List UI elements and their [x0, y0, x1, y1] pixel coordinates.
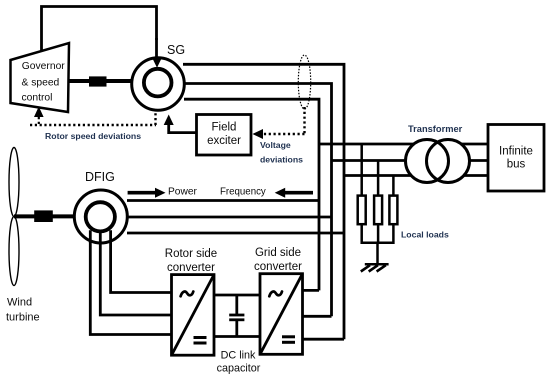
- wire: local load tap 3: [392, 176, 395, 197]
- label: Voltage deviations: [260, 140, 303, 165]
- svg-text:Wind: Wind: [7, 297, 32, 309]
- svg-text:Grid side: Grid side: [255, 247, 301, 259]
- wind turbine blades: [9, 148, 19, 286]
- converter: rotor side (AC/DC): [172, 275, 215, 356]
- dotted feedback: voltage deviations (bus to field exciter): [253, 107, 305, 139]
- shaft: wind turbine to DFIG with coupling block: [14, 210, 76, 222]
- wire: DFIG stator phase b to v2: [128, 216, 332, 219]
- wire: bus line 3: [344, 174, 488, 177]
- svg-text:deviations: deviations: [260, 155, 303, 165]
- wire: grid converter output 3 to v3: [303, 338, 345, 341]
- svg-text:SG: SG: [167, 43, 185, 57]
- svg-text:Power: Power: [168, 186, 197, 197]
- resistor R2 (local load): [374, 196, 382, 225]
- transformer T1: [406, 140, 470, 183]
- svg-text:Rotor side: Rotor side: [165, 248, 217, 260]
- wire: DFIG stator phase c to v3: [127, 232, 344, 235]
- shaft: governor to SG with coupling block: [68, 76, 132, 86]
- wire: bus line 2: [332, 159, 489, 162]
- svg-text:Voltage: Voltage: [260, 140, 291, 150]
- svg-text:capacitor: capacitor: [217, 362, 261, 374]
- governor block: Governor & speed control: [11, 43, 70, 112]
- wire: DFIG rotor line 1 to rotor side converter: [90, 229, 171, 335]
- svg-text:Field: Field: [212, 122, 237, 134]
- wire: bus line 1 to transformer and infinite bus: [319, 143, 488, 146]
- ground: [361, 264, 389, 271]
- svg-text:Infinite: Infinite: [499, 146, 533, 158]
- svg-text:& speed: & speed: [22, 78, 60, 89]
- svg-text:DC link: DC link: [221, 350, 256, 362]
- svg-text:bus: bus: [507, 158, 526, 170]
- wire: DC link bottom rail: [214, 335, 260, 338]
- wire: governor feedback loop (SG top to governor): [42, 7, 157, 53]
- wire: DFIG stator phase a to v1: [127, 199, 319, 202]
- wire: field exciter to SG rotor (arrow up): [164, 115, 197, 133]
- wire: local load tap 2: [377, 161, 380, 197]
- label: Rotor side converter: [165, 248, 217, 274]
- wire: SG stator phase c to bus vertical v1: [184, 99, 319, 290]
- infinite bus box: [488, 125, 544, 192]
- resistor R1 (local load): [358, 196, 366, 225]
- svg-text:Transformer: Transformer: [408, 124, 463, 134]
- wire: local loads common return: [362, 224, 394, 264]
- label: DC link capacitor: [217, 350, 261, 375]
- wire: DFIG rotor line 2 to rotor side converter: [100, 232, 171, 315]
- wire: grid converter output 2 to v2: [303, 315, 332, 318]
- svg-text:turbine: turbine: [6, 312, 40, 324]
- measurement ellipse (dashed) on bus: [298, 55, 310, 109]
- wire: local load tap 1: [360, 144, 363, 196]
- svg-text:Frequency: Frequency: [220, 186, 266, 197]
- label: Wind turbine: [6, 297, 40, 324]
- field exciter box: [197, 115, 252, 156]
- capacitor: DC link: [229, 295, 244, 337]
- resistor R3 (local load): [389, 196, 397, 225]
- label: Grid side converter: [254, 247, 302, 273]
- svg-text:converter: converter: [167, 262, 215, 274]
- wire: DFIG rotor line 3 to rotor side converter: [111, 229, 172, 293]
- wire: SG stator phase a (top) to bus vertical v3: [183, 64, 344, 339]
- arrow: frequency flow left: [275, 188, 313, 198]
- dotted feedback: rotor speed deviations (SG to governor): [30, 107, 156, 127]
- svg-text:Governor: Governor: [22, 61, 65, 72]
- wire: grid converter output 1 to v1: [303, 289, 320, 292]
- wire: SG stator phase b to bus vertical v2: [184, 84, 332, 317]
- svg-text:Local loads: Local loads: [401, 230, 449, 240]
- svg-text:exciter: exciter: [207, 135, 241, 147]
- svg-text:converter: converter: [254, 261, 302, 273]
- arrow: power flow right: [128, 188, 166, 198]
- svg-text:control: control: [22, 92, 53, 103]
- svg-text:DFIG: DFIG: [85, 170, 115, 184]
- synchronous generator SG: [132, 38, 185, 110]
- generator DFIG: [74, 190, 127, 243]
- converter: grid side (DC/AC): [260, 274, 303, 355]
- wire: DC link top rail: [214, 294, 260, 297]
- svg-text:Rotor speed deviations: Rotor speed deviations: [45, 131, 141, 141]
